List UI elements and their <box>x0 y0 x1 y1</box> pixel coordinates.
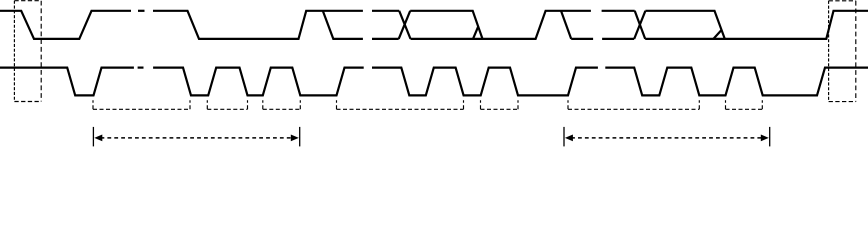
wire SCL segment 4: clock pulses to right edge <box>605 68 868 96</box>
wire SDA segment 2: high, fall, low, rise, high (to gap) <box>153 11 363 39</box>
wire arrow 1 left terminal bar <box>92 127 94 146</box>
node arrow 2 right head <box>761 135 769 142</box>
wire SDA segment 1: high, fall, low, rise, high (to break) <box>0 11 131 39</box>
wire SDA high rail with bus-close fall 2 <box>645 11 724 39</box>
wire SDA crossover X1 rising diagonal <box>399 11 411 39</box>
wire SDA bus-open fall 1 <box>323 11 363 39</box>
node arrow 2 left head <box>565 135 573 142</box>
wire SDA bus-close 2 rising stub <box>713 30 721 39</box>
node dimension arrow 2 (right) <box>564 127 770 146</box>
wire SDA high rail after gap 1 <box>372 10 399 12</box>
node measurement bracket 6 under SCL <box>567 100 569 109</box>
node measurement bracket 2 under SCL <box>206 100 208 109</box>
wire SCL segment 1: high, pulse low, high (to break) <box>0 68 134 96</box>
wire SCL segment 2: clock pulses (to gap 1) <box>153 68 364 96</box>
node measurement bracket 1 under SCL <box>92 100 94 109</box>
node measurement bracket 5 under SCL <box>480 100 482 109</box>
node measurement bracket 7 under SCL <box>725 100 727 109</box>
node dimension arrow 1 (left) <box>93 127 299 146</box>
wire SDA low rail, rise, high (to gap 2) <box>411 11 591 39</box>
node START condition dashed box (left) <box>14 1 41 102</box>
wire SCL break middle dash <box>138 66 144 68</box>
wire SDA low rail after gap 1 <box>372 38 399 40</box>
wire SDA crossover X1 falling diagonal <box>399 11 410 39</box>
wire SDA high rail with bus-close fall 1 <box>410 11 482 39</box>
wire arrow 2 left terminal bar <box>563 127 565 146</box>
wire SDA crossover X2 rising diagonal <box>634 11 645 39</box>
wire arrow 1 dashed shaft <box>101 137 293 139</box>
wire SDA bus-open fall 2 <box>561 11 571 39</box>
wire arrow 1 right terminal bar <box>299 127 301 146</box>
wire SCL segment 3: clock pulses (to gap 2) <box>372 68 598 96</box>
wire SDA bus-close 1 rising stub <box>473 26 478 39</box>
node arrow 1 left head <box>94 135 102 142</box>
node arrow 1 right head <box>291 135 299 142</box>
wire SDA break middle dash <box>138 10 145 12</box>
wire SDA low rail after gap 2 <box>602 38 634 40</box>
node measurement bracket 3 under SCL <box>262 100 264 109</box>
wire SDA low rail, final rise (STOP), high to edge <box>645 11 868 39</box>
wire SDA low rail to gap 2 <box>571 38 593 40</box>
wire SDA crossover X2 falling diagonal <box>635 11 646 39</box>
wire arrow 2 right terminal bar <box>769 127 771 146</box>
wire arrow 2 dashed shaft <box>571 137 762 139</box>
node STOP condition dashed box (right) <box>829 1 856 102</box>
wire SDA high rail after gap 2 <box>602 10 635 12</box>
node measurement bracket 4 under SCL <box>336 100 338 109</box>
